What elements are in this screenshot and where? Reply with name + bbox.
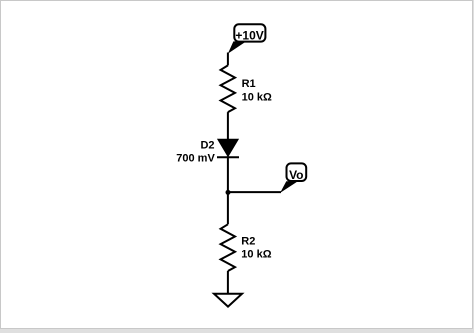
svg-text:R1: R1 — [242, 78, 256, 90]
svg-text:D2: D2 — [200, 140, 214, 152]
wire — [227, 53, 229, 66]
svg-text:10 kΩ: 10 kΩ — [242, 92, 272, 104]
node junction dot — [226, 190, 231, 195]
resistor R2 — [221, 224, 235, 271]
net flag Vo — [280, 163, 306, 193]
diode D2 — [217, 139, 239, 157]
ground — [214, 294, 242, 307]
svg-text:+10V: +10V — [235, 28, 263, 42]
svg-text:R2: R2 — [241, 235, 255, 247]
svg-text:10 kΩ: 10 kΩ — [241, 248, 271, 260]
svg-text:Vo: Vo — [289, 168, 303, 182]
wire — [228, 191, 281, 193]
wire — [227, 271, 229, 294]
wire — [227, 156, 229, 224]
wire — [227, 112, 229, 139]
net flag +10V — [228, 24, 266, 53]
svg-text:700 mV: 700 mV — [176, 152, 215, 164]
resistor R1 — [221, 65, 235, 112]
